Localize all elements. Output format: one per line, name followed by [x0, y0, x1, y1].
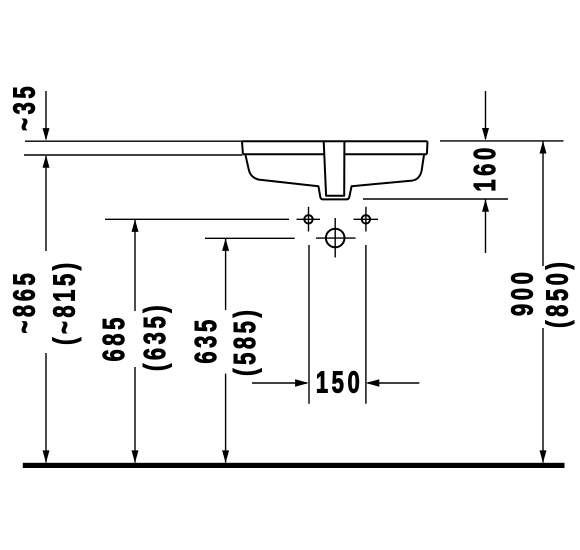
svg-text:160: 160 — [467, 144, 502, 191]
svg-text:~865: ~865 — [7, 270, 42, 334]
svg-text:635: 635 — [189, 316, 224, 363]
svg-text:685: 685 — [96, 314, 131, 361]
svg-text:(~815): (~815) — [47, 259, 82, 345]
svg-text:(850): (850) — [540, 259, 575, 328]
svg-text:~35: ~35 — [7, 83, 42, 131]
svg-text:900: 900 — [505, 269, 540, 316]
svg-text:(585): (585) — [227, 307, 262, 376]
svg-text:(635): (635) — [137, 302, 172, 371]
svg-text:150: 150 — [316, 365, 363, 400]
